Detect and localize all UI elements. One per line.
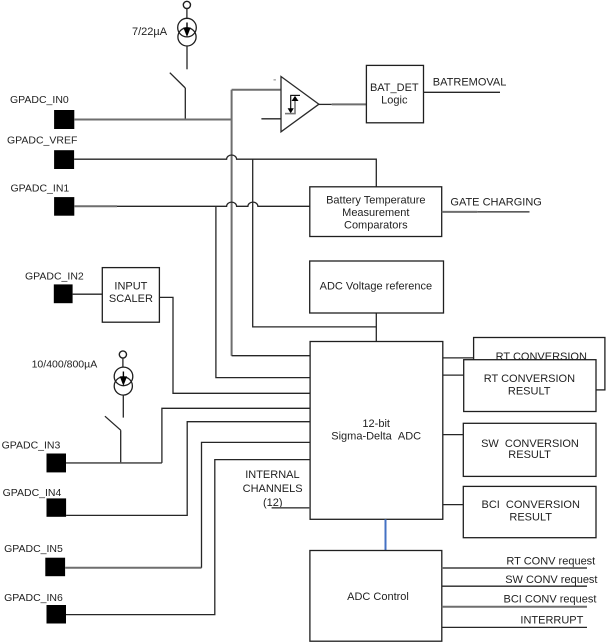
svg-text:GPADC_IN2: GPADC_IN2 <box>25 271 84 283</box>
block BAT_DET Logic <box>366 65 423 122</box>
svg-text:RT CONV request: RT CONV request <box>506 555 595 567</box>
block 12-bit Sigma-Delta ADC <box>310 342 443 520</box>
current source I1 terminal <box>183 1 190 18</box>
svg-text:10/400/800µA: 10/400/800µA <box>32 359 98 371</box>
svg-text:INTERRUPT: INTERRUPT <box>520 614 583 626</box>
wire IN1 riser <box>216 206 310 377</box>
pad GPADC_IN0 <box>54 110 74 129</box>
pad GPADC_IN4 <box>47 498 67 516</box>
svg-text:BCI CONV request: BCI CONV request <box>504 593 597 605</box>
wire voltage reference to ADC <box>375 313 377 342</box>
current source I2 terminal <box>119 351 126 367</box>
wire IN5 <box>65 442 310 567</box>
wire IN0 riser <box>232 90 281 356</box>
wire ADC to SW result <box>443 434 464 436</box>
svg-text:GPADC_IN6: GPADC_IN6 <box>4 592 63 604</box>
switch S2 <box>105 416 121 463</box>
svg-text:INTERNAL: INTERNAL <box>245 469 299 481</box>
pad GPADC_IN2 <box>54 284 73 303</box>
wire IN6 <box>66 460 310 615</box>
comparator U1 <box>281 77 319 132</box>
wire BATREMOVAL <box>424 91 501 93</box>
svg-text:GPADC_IN4: GPADC_IN4 <box>3 487 62 499</box>
svg-text:RT CONVERSION: RT CONVERSION <box>484 373 575 385</box>
wire ADC to RT back box <box>443 357 474 359</box>
wire ADC to ADC Control (blue) <box>385 519 387 550</box>
svg-text:Battery Temperature: Battery Temperature <box>326 194 425 206</box>
svg-text:GATE CHARGING: GATE CHARGING <box>450 197 541 209</box>
wire INTERRUPT <box>442 626 587 628</box>
wire IN1 horizontal with hops <box>74 202 309 206</box>
svg-text:ADC Control: ADC Control <box>347 591 409 603</box>
svg-text:12-bit: 12-bit <box>362 418 390 430</box>
svg-text:GPADC_IN0: GPADC_IN0 <box>10 94 69 106</box>
switch S1 <box>170 73 186 120</box>
block INPUT SCALER <box>102 268 159 323</box>
wire internal channels <box>272 507 311 509</box>
wire BCI CONV request <box>442 606 587 608</box>
wire GATE CHARGING <box>442 211 530 213</box>
svg-text:Logic: Logic <box>381 94 408 106</box>
svg-text:Comparators: Comparators <box>344 220 408 232</box>
wire IN0 horizontal <box>74 119 231 121</box>
svg-text:BAT_DET: BAT_DET <box>370 82 419 94</box>
svg-text:CHANNELS: CHANNELS <box>243 483 303 495</box>
wire IN4 <box>66 422 310 516</box>
wire VREF horizontal with hop <box>74 155 376 187</box>
wire I2 to switch <box>122 395 124 418</box>
svg-text:GPADC_VREF: GPADC_VREF <box>7 135 77 147</box>
comparator minus input stub <box>261 118 281 120</box>
block RT CONVERSION RESULT <box>464 360 596 412</box>
pad GPADC_IN1 <box>54 197 74 216</box>
pad GPADC_IN6 <box>47 605 67 624</box>
svg-text:SCALER: SCALER <box>109 293 153 305</box>
svg-text:Sigma-Delta ADC: Sigma-Delta ADC <box>331 431 421 443</box>
pad GPADC_VREF <box>54 150 74 169</box>
comparator output wire <box>319 103 367 105</box>
comparator hysteresis symbol <box>285 95 300 113</box>
svg-text:BATREMOVAL: BATREMOVAL <box>433 76 507 88</box>
wire ADC to RT result <box>443 374 464 376</box>
svg-text:SW CONV request: SW CONV request <box>505 574 597 586</box>
wire VREF riser <box>253 159 377 327</box>
svg-text:RESULT: RESULT <box>508 449 551 461</box>
block ADC Voltage reference <box>310 261 444 313</box>
block RT CONVERSION (back) <box>474 338 605 390</box>
svg-text:INPUT: INPUT <box>114 281 147 293</box>
svg-text:GPADC_IN3: GPADC_IN3 <box>2 439 61 451</box>
svg-text:RESULT: RESULT <box>509 512 552 524</box>
pad GPADC_IN5 <box>45 558 65 577</box>
svg-text:GPADC_IN1: GPADC_IN1 <box>11 183 70 195</box>
svg-text:RESULT: RESULT <box>508 385 551 397</box>
wire ADC to BCI result <box>443 504 464 506</box>
svg-text:ADC Voltage reference: ADC Voltage reference <box>320 281 433 293</box>
svg-text:7/22µA: 7/22µA <box>132 26 168 38</box>
wire SW CONV request <box>442 585 587 587</box>
svg-text:Measurement: Measurement <box>342 207 409 219</box>
stray dot <box>274 79 276 81</box>
wire RT CONV request <box>442 567 587 569</box>
wire scaler output <box>159 297 310 393</box>
block ADC Control <box>310 551 442 642</box>
label INTERNAL CHANNELS (12) <box>243 469 303 509</box>
wire IN0 into ADC <box>232 355 311 357</box>
current source I2 <box>114 367 133 395</box>
block BCI CONVERSION RESULT <box>463 486 596 537</box>
block Battery Temperature Measurement Comparators <box>310 187 442 237</box>
svg-text:GPADC_IN5: GPADC_IN5 <box>4 543 63 555</box>
svg-text:BCI CONVERSION: BCI CONVERSION <box>481 499 579 511</box>
block SW CONVERSION RESULT <box>463 423 596 476</box>
wire I1 to switch <box>186 46 188 69</box>
wire IN2 to scaler <box>73 293 103 295</box>
wire IN3 <box>66 408 310 463</box>
current source I1 <box>178 18 197 46</box>
pad GPADC_IN3 <box>47 454 67 473</box>
svg-text:SW CONVERSION: SW CONVERSION <box>481 438 579 450</box>
